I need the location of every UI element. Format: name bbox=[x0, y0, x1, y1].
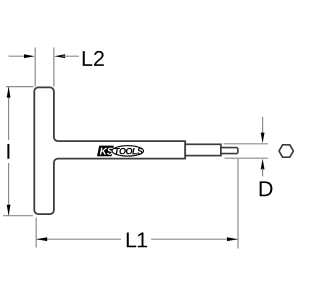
dimension D upper arrowhead pointing down bbox=[261, 133, 265, 144]
dimension D bottom extension line bbox=[225, 157, 269, 159]
dimension L1 right extension line bbox=[237, 159, 239, 249]
dimension I dimension line upper segment bbox=[8, 87, 10, 140]
dimension L2 left extension line bbox=[34, 48, 36, 87]
dimension D lower arrowhead pointing up bbox=[261, 159, 265, 170]
label I bbox=[7, 144, 9, 159]
dimension L2 left leader line bbox=[9, 55, 29, 57]
dimension L2 left arrowhead bbox=[24, 54, 35, 58]
label D bbox=[260, 181, 273, 196]
dimension L1 right arrowhead bbox=[227, 237, 238, 241]
T-handle body outline (handle + insulated shaft) bbox=[34, 87, 185, 214]
logo KS black box bbox=[97, 146, 114, 157]
dimension I lower arrowhead bbox=[7, 205, 11, 216]
label L2 bbox=[83, 51, 104, 66]
dimension D lower leader line bbox=[262, 169, 264, 177]
logo KS letters bbox=[100, 148, 114, 155]
KS TOOLS logo bbox=[97, 146, 144, 157]
dimension L1 left arrowhead bbox=[36, 237, 47, 241]
dimension I top extension line bbox=[6, 86, 34, 88]
dimension L2 right arrowhead bbox=[54, 54, 65, 58]
dimension D top extension line bbox=[224, 143, 269, 145]
hex key tip bbox=[221, 148, 238, 154]
label L1 bbox=[127, 233, 147, 248]
dimension I bottom extension line bbox=[3, 215, 33, 217]
dimension L1 left extension line bbox=[35, 218, 37, 248]
dimension L2 right extension line bbox=[53, 48, 55, 87]
logo TOOLS letters bbox=[115, 148, 143, 154]
dimension D upper leader line bbox=[262, 117, 264, 137]
hexagon end view of hex tip bbox=[279, 145, 293, 157]
logo TOOLS ellipse outline bbox=[112, 146, 144, 156]
metal shaft step section bbox=[185, 144, 221, 155]
dimension I dimension line lower segment bbox=[8, 163, 10, 215]
dimension L1 dimension line right segment bbox=[151, 238, 238, 240]
dimension L1 dimension line left segment bbox=[37, 238, 121, 240]
dimension L2 right leader line bbox=[63, 55, 80, 57]
dimension I upper arrowhead bbox=[7, 87, 11, 98]
